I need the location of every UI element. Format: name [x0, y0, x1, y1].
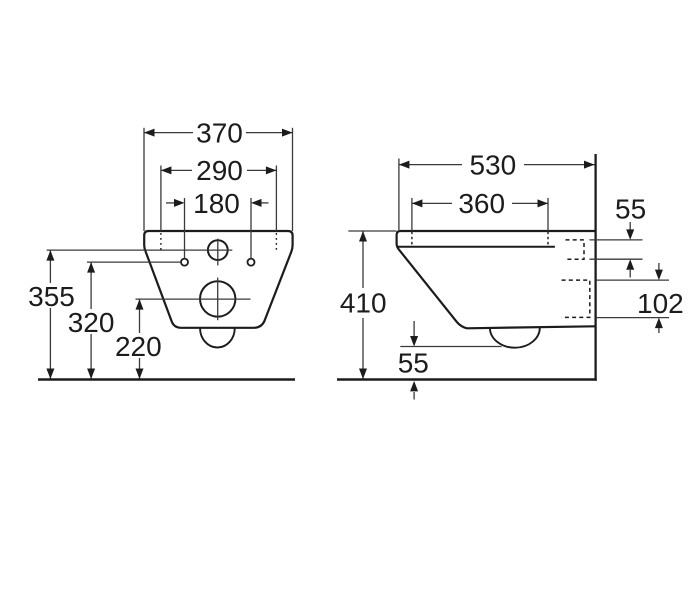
arrow from below ground pointing up [413, 392, 415, 400]
dashed line in rim left (360 alignment) [411, 232, 413, 248]
arrow 102 top pointing down [658, 263, 660, 271]
dimension line 530 [399, 164, 462, 166]
extension line 180 right [250, 198, 252, 259]
leader line rect2 top (102) [597, 279, 669, 281]
leader line rect2 bottom (102) [597, 317, 669, 319]
leader line 320 (to left fixing hole) [87, 261, 181, 263]
arrow 55 upper pointing up [629, 270, 631, 278]
dashed line in rim right (360 alignment) [547, 232, 549, 248]
svg-text:180: 180 [193, 188, 240, 219]
dashed rectangle 2 (lower outlet connection, open left) [562, 280, 590, 317]
extension line 360 left [411, 198, 413, 231]
left fixing hole [181, 259, 188, 266]
dimension line 355 vertical [49, 250, 51, 283]
dimension line 410 vertical [362, 231, 364, 288]
dimension line 290 [161, 169, 192, 171]
extension line 290 left [160, 166, 162, 232]
svg-text:530: 530 [469, 150, 516, 181]
ground line left [38, 378, 295, 380]
leader line 355 (through flush hole crosshair) [47, 249, 233, 251]
dimension line 220 vertical [139, 299, 141, 333]
leader line 55 bottom (under outlet bump) [400, 346, 501, 348]
arrow 102 bottom pointing up [658, 328, 660, 333]
extension line 370 right [292, 128, 294, 231]
arrow 55 bottom pointing down [413, 321, 415, 336]
ground line right [337, 378, 597, 380]
drain circle vertical crosshair [217, 278, 219, 321]
hidden dashed line left (290 alignment) [160, 233, 162, 251]
svg-text:220: 220 [115, 331, 162, 362]
svg-text:102: 102 [637, 288, 684, 319]
leader line rect1 top (55 upper) [589, 239, 642, 241]
extension line 180 left [184, 198, 186, 259]
flush hole vertical crosshair [217, 239, 219, 266]
svg-text:370: 370 [196, 117, 243, 148]
right fixing hole [248, 259, 255, 266]
extension line 290 right [275, 166, 277, 232]
leader line rect1 bottom [589, 258, 642, 260]
wall line [594, 154, 596, 381]
rim underside line [398, 246, 555, 248]
dashed rectangle 1 (upper wall connection, open left) [566, 240, 585, 259]
dimension line 180 outside segments with inward arrows [166, 202, 174, 204]
leader line 220 (through drain crosshair) [136, 298, 251, 300]
outlet bump (front view) hanging below bottom edge [200, 328, 235, 347]
svg-text:55: 55 [398, 348, 429, 379]
extension line 360 right [547, 198, 549, 231]
outlet bump (side view) hanging below bottom edge [490, 327, 540, 347]
svg-text:55: 55 [615, 194, 646, 225]
dimension line 370 [144, 132, 193, 134]
dimension line 320 vertical [90, 262, 92, 309]
svg-text:290: 290 [196, 155, 243, 186]
arrow 55 upper pointing down [629, 222, 631, 230]
svg-text:320: 320 [68, 307, 115, 338]
dimension line 360 [412, 202, 452, 204]
extension line 530 left [398, 159, 400, 232]
flush hole circle (top) [208, 240, 228, 260]
leader line 410 (to rim top) [348, 230, 396, 232]
svg-text:410: 410 [340, 288, 387, 319]
toilet body outline (front view) [144, 231, 292, 328]
hidden dashed line right (290 alignment) [275, 233, 277, 251]
extension line 370 left [143, 128, 145, 231]
svg-text:360: 360 [458, 188, 505, 219]
drain circle (big) [200, 281, 235, 316]
side profile: rim top, front face, slant, bottom edge [397, 231, 596, 328]
